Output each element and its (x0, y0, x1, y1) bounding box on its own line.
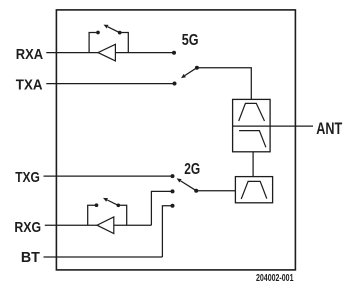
wire RXG input lead (45, 224, 97, 226)
node 5G antenna switch pole (195, 66, 199, 70)
wire 5G switch pole to diplexer input (197, 68, 251, 100)
wire RXG amp output (114, 224, 152, 226)
node bypass right terminal (RXG) (116, 203, 120, 207)
wire RXA bypass right leg (120, 33, 129, 53)
LNA U2 (RXG receive amplifier, points left) (97, 217, 114, 234)
switch arm SW1 (RXA LNA bypass, open) (104, 25, 120, 33)
node RXG throw of 2G switch (171, 189, 175, 193)
LNA U1 (RXA receive amplifier, points left) (98, 44, 115, 61)
svg-text:5G: 5G (182, 32, 199, 49)
outer block boundary box (56, 10, 295, 270)
node bypass left terminal (RXA) (96, 31, 100, 35)
wire TXA lead (46, 83, 174, 85)
wire RXA amp output to antenna-switch node (115, 52, 174, 54)
wire BT path riser to switch throw (162, 206, 172, 257)
wire diplexer low-band port to 2G TX filter (252, 152, 254, 177)
svg-text:RXG: RXG (14, 220, 41, 236)
svg-text:TXA: TXA (16, 78, 43, 94)
wire TXG lead (44, 175, 173, 177)
band-pass filter symbol (high band) (239, 103, 265, 121)
wire RXA bypass left leg (89, 33, 96, 53)
node bypass right terminal (RXA) (118, 31, 122, 35)
2G TX band-pass filter box (235, 177, 272, 203)
svg-text:2G: 2G (184, 161, 200, 178)
band-pass filter symbol (2G TX) (241, 181, 267, 199)
wire diplexer common to ANT port (270, 125, 313, 127)
svg-text:TXG: TXG (15, 170, 40, 186)
switch arm SW4 (RXG LNA bypass, open) (103, 198, 118, 206)
switch arm SW2 (5G antenna switch, selecting TXA) (181, 68, 197, 78)
node TXA throw of 5G antenna switch (173, 82, 177, 86)
diplexer high-band filter box (233, 99, 271, 151)
node BT throw of 2G switch (171, 204, 175, 208)
svg-text:204002-001: 204002-001 (256, 272, 294, 284)
low-pass filter symbol (239, 131, 266, 148)
node bypass left terminal (RXG) (95, 203, 99, 207)
wire RXA input lead (46, 52, 98, 54)
wire BT lead (44, 256, 163, 258)
node TXG throw of 2G switch (171, 174, 175, 178)
svg-text:RXA: RXA (16, 47, 44, 63)
wire 2G switch pole to 2G TX filter (196, 190, 235, 192)
diplexer low-band filter box (divider) (233, 125, 271, 127)
node RXA throw of 5G antenna switch (172, 51, 176, 55)
wire RXG bypass left leg (88, 205, 95, 225)
wire RXG path riser to switch throw (151, 191, 172, 225)
svg-text:BT: BT (21, 250, 40, 266)
wire RXG bypass right leg (118, 205, 126, 225)
svg-text:ANT: ANT (316, 120, 342, 138)
switch arm SW3 (2G switch, selecting TXG) (177, 178, 197, 190)
node 2G switch pole (194, 189, 198, 193)
